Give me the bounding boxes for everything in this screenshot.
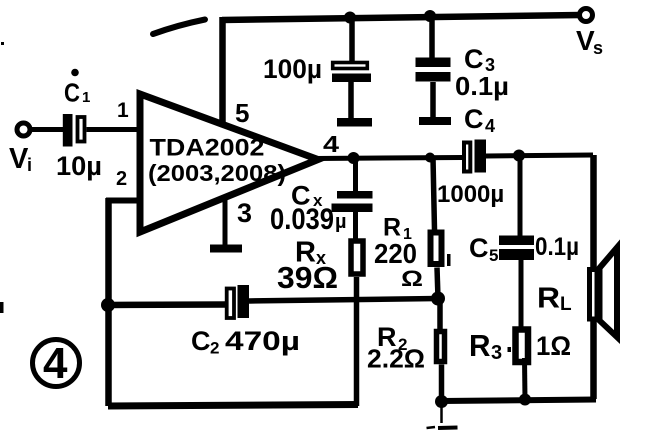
label 220 <box>374 238 417 269</box>
capacitor C3 <box>416 18 451 118</box>
ground at pin 3 <box>210 245 242 253</box>
capacitor C5 <box>499 236 534 261</box>
label 10u <box>56 151 102 181</box>
label C3 <box>464 44 495 75</box>
node: output junction at R1 <box>425 153 435 163</box>
svg-text:10µ: 10µ <box>56 151 102 181</box>
svg-text:3: 3 <box>491 342 502 364</box>
node: feedback junction <box>431 292 445 306</box>
svg-text:0.1µ: 0.1µ <box>455 71 509 101</box>
svg-text:1Ω: 1Ω <box>536 331 571 361</box>
label C2 470u <box>191 326 300 358</box>
svg-text:100µ: 100µ <box>263 54 322 84</box>
wire: feedback line right of C2 <box>249 299 438 302</box>
label (2003,2008) <box>148 160 286 186</box>
svg-text:4: 4 <box>43 339 68 388</box>
wire: top supply rail <box>222 15 580 20</box>
svg-text:Ω: Ω <box>401 266 423 291</box>
svg-text:(2003,2008): (2003,2008) <box>148 160 286 186</box>
capacitor C1 <box>63 114 85 147</box>
svg-text:µ: µ <box>335 211 347 233</box>
wire: bottom right rail <box>442 400 597 402</box>
label 39ohm <box>277 260 338 295</box>
label RL <box>537 283 572 316</box>
label 1000u <box>437 181 504 208</box>
wire: R1 branch from output <box>433 158 435 230</box>
node: junction pin2 / C2 line <box>101 298 115 312</box>
ground under C3 <box>419 117 451 125</box>
wire: C5 to R3 <box>519 260 524 328</box>
stray dash left edge <box>0 302 4 313</box>
label 100u <box>263 54 322 84</box>
resistor R1 <box>431 233 442 265</box>
label Vs <box>576 25 603 58</box>
resistor R2 <box>437 332 445 362</box>
label 1ohm <box>536 331 571 361</box>
wire: C5 branch down <box>518 156 523 237</box>
pin label 2 <box>116 168 127 190</box>
label C5 <box>469 233 498 265</box>
wire: pin 3 drop <box>223 200 228 246</box>
label ohm <box>401 266 423 291</box>
wire: left vertical down <box>105 198 112 406</box>
node: junction C5 branch <box>513 150 525 162</box>
wire: R3 bottom <box>522 358 528 400</box>
figure number circled 4 <box>33 339 80 388</box>
wire: R1 bottom to node <box>437 268 438 299</box>
node: junction of 100u with rail <box>344 12 356 24</box>
svg-text:i: i <box>27 155 32 175</box>
svg-text:5: 5 <box>489 246 498 265</box>
svg-text:39Ω: 39Ω <box>277 260 338 295</box>
label 0.1u right <box>535 233 579 261</box>
stray tick right of R1 <box>447 254 451 266</box>
label TDA2002 <box>150 135 265 162</box>
ground mark under R2 <box>427 405 458 428</box>
svg-text:3: 3 <box>237 198 252 228</box>
wire: C4 to speaker corner <box>486 155 593 156</box>
node: junction R3 bottom rail <box>519 394 531 406</box>
svg-text:C: C <box>469 233 489 263</box>
label Vi <box>9 143 32 175</box>
svg-text:1: 1 <box>117 99 129 122</box>
wire: right vertical to speaker <box>590 155 597 399</box>
wire: Rx bottom to ground rail <box>354 277 360 406</box>
svg-text:5: 5 <box>235 98 249 128</box>
wire: node to R2 <box>437 299 443 331</box>
svg-text:4: 4 <box>323 131 339 157</box>
label Cx <box>291 181 323 211</box>
wire: pin 5 riser from rail to op-amp <box>219 17 226 126</box>
svg-text:C: C <box>64 78 80 108</box>
svg-text:R: R <box>537 283 560 315</box>
pin label 1 <box>117 99 129 122</box>
node: junction of C3 with rail <box>424 10 436 22</box>
svg-text:R: R <box>469 328 491 363</box>
svg-text:4: 4 <box>485 116 495 136</box>
label 0.1u <box>455 71 509 101</box>
svg-text:TDA2002: TDA2002 <box>150 135 265 162</box>
speaker RL driver rect <box>590 270 598 320</box>
wire: output pin 4 <box>316 158 462 159</box>
svg-text:2.2Ω: 2.2Ω <box>367 344 425 374</box>
stray pen mark top left <box>153 20 205 35</box>
svg-text:s: s <box>593 38 603 58</box>
wire: Vi to C1 <box>30 127 64 132</box>
capacitor C2 <box>227 285 249 318</box>
speck top left <box>1 42 4 45</box>
resistor R3 <box>516 330 529 363</box>
speaker RL cone <box>600 248 618 338</box>
svg-text:0.1µ: 0.1µ <box>535 233 579 261</box>
terminal Vi <box>17 123 30 136</box>
svg-text:1: 1 <box>82 89 90 106</box>
label 2.2ohm <box>367 344 425 374</box>
svg-text:220: 220 <box>374 238 417 269</box>
svg-text:470µ: 470µ <box>225 326 300 356</box>
node: output junction at Cx <box>348 152 360 164</box>
resistor Rx <box>351 241 363 274</box>
label C1 <box>64 69 90 108</box>
pin label 4 <box>323 131 339 157</box>
wire: C1 to pin 1 <box>87 127 141 132</box>
label R3 <box>469 328 502 364</box>
op-amp U1 TDA2002 triangle <box>140 94 318 232</box>
svg-text:0.039: 0.039 <box>270 203 334 236</box>
svg-text:V: V <box>9 143 29 175</box>
label C4 <box>464 104 495 136</box>
svg-text:C: C <box>464 44 484 74</box>
capacitor C4 <box>464 140 486 173</box>
label Rx <box>295 237 326 269</box>
wire: R2 bottom <box>439 365 445 402</box>
svg-text:C: C <box>191 326 211 356</box>
pin label 3 <box>237 198 252 228</box>
speck near R3 <box>508 347 512 352</box>
svg-text:2: 2 <box>116 168 127 190</box>
wire: pin 2 to left vertical <box>106 198 140 204</box>
svg-text:L: L <box>560 294 572 315</box>
svg-text:2: 2 <box>210 339 219 358</box>
node: bottom junction under R2 <box>435 395 448 408</box>
terminal Vs <box>580 9 593 22</box>
label R1 <box>383 214 412 244</box>
label 0.039u <box>270 203 347 236</box>
wire: feedback line left of C2 <box>108 301 226 308</box>
pin label 5 <box>235 98 249 128</box>
svg-text:1000µ: 1000µ <box>437 181 504 208</box>
capacitor Cx <box>332 158 373 240</box>
wire: bottom left rail <box>108 405 358 407</box>
ground under 100u <box>337 118 372 127</box>
svg-text:C: C <box>464 104 484 134</box>
capacitor 100u (wire from rail) <box>332 20 371 119</box>
label R2 <box>377 322 407 354</box>
